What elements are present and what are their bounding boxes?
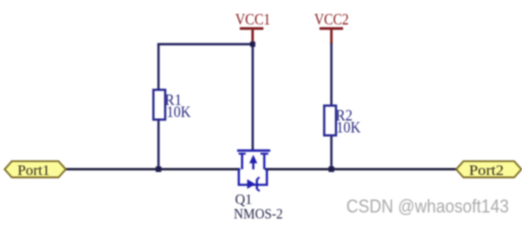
power symbol VCC1 bbox=[235, 11, 270, 43]
drain stem bbox=[263, 154, 265, 170]
node junction dot at R2 branch on main wire bbox=[329, 166, 335, 172]
wire gate vertical from VCC1 node down to Q1 gate bbox=[252, 44, 254, 150]
body diode cathode bottom tail bbox=[257, 189, 260, 191]
port Port1 bbox=[5, 161, 66, 179]
resistor R2 bbox=[324, 106, 360, 137]
port Port2 bbox=[456, 161, 521, 179]
gate plate bar bbox=[237, 149, 270, 151]
transistor Q1 (NMOS with body diode) bbox=[237, 151, 270, 192]
wire vertical above R2 bbox=[330, 43, 332, 107]
svg-text:10K: 10K bbox=[167, 104, 191, 121]
wire vertical below R1 to main wire bbox=[157, 119, 159, 169]
node junction dot at VCC1 / gate bbox=[250, 42, 255, 47]
svg-text:10K: 10K bbox=[336, 119, 360, 136]
svg-text:NMOS-2: NMOS-2 bbox=[234, 206, 283, 222]
svg-text:Port2: Port2 bbox=[469, 163, 504, 179]
drain contact cap bbox=[261, 153, 269, 155]
substrate stem bbox=[252, 162, 254, 170]
wire top horizontal from R1 branch to gate node bbox=[157, 43, 254, 45]
power symbol VCC2 bbox=[314, 11, 349, 44]
body diode cathode top tail bbox=[257, 177, 260, 179]
node junction dot at R1 branch on main wire bbox=[156, 166, 162, 172]
body diode cathode bar bbox=[256, 179, 258, 189]
svg-text:VCC1: VCC1 bbox=[235, 11, 270, 28]
substrate arrow bbox=[249, 155, 257, 163]
wire main horizontal right (Q1 drain to Port2) bbox=[265, 168, 458, 170]
wire vertical below R2 to main wire bbox=[330, 134, 332, 169]
svg-text:VCC2: VCC2 bbox=[314, 11, 349, 28]
svg-text:Port1: Port1 bbox=[18, 163, 50, 179]
body diode anode triangle bbox=[247, 179, 255, 189]
source stem bbox=[241, 154, 243, 170]
wire main horizontal left (Port1 to Q1 source) bbox=[65, 168, 241, 170]
wire vertical above R1 bbox=[157, 43, 159, 91]
source contact cap bbox=[239, 153, 246, 155]
body diode loop bbox=[239, 169, 267, 185]
svg-text:CSDN @whaosoft143: CSDN @whaosoft143 bbox=[346, 195, 509, 216]
resistor R1 bbox=[153, 90, 190, 121]
